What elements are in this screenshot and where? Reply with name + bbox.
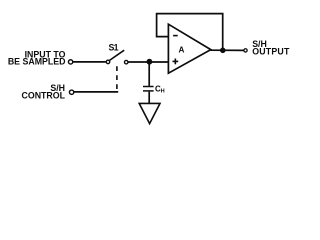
wire junction down to capacitor — [148, 62, 150, 86]
switch S1 — [106, 50, 128, 64]
node output junction — [220, 48, 226, 54]
wire op-amp output — [211, 49, 244, 51]
label INPUT TO BE SAMPLED — [8, 49, 66, 66]
control terminal — [69, 90, 73, 94]
label S/H CONTROL — [22, 83, 66, 100]
svg-text:S1: S1 — [109, 43, 119, 53]
svg-text:OUTPUT: OUTPUT — [252, 47, 290, 57]
op-amp A — [168, 24, 210, 73]
svg-text:BE SAMPLED: BE SAMPLED — [8, 57, 66, 67]
label S/H OUTPUT — [252, 39, 290, 56]
wire control to dashed riser — [74, 91, 118, 93]
wire input to switch — [73, 61, 106, 63]
svg-text:H: H — [161, 88, 165, 94]
output terminal — [244, 49, 247, 52]
node junction at hold cap — [147, 59, 153, 65]
svg-text:A: A — [179, 46, 185, 55]
label CH — [155, 85, 165, 95]
dashed control line to switch — [116, 66, 118, 91]
capacitor CH — [143, 87, 154, 91]
ground — [139, 103, 160, 123]
input terminal — [68, 60, 72, 64]
wire switch to op-amp + input — [128, 61, 168, 63]
svg-text:CONTROL: CONTROL — [22, 90, 66, 100]
wire feedback loop — [157, 14, 223, 51]
wire capacitor to ground — [148, 92, 150, 103]
